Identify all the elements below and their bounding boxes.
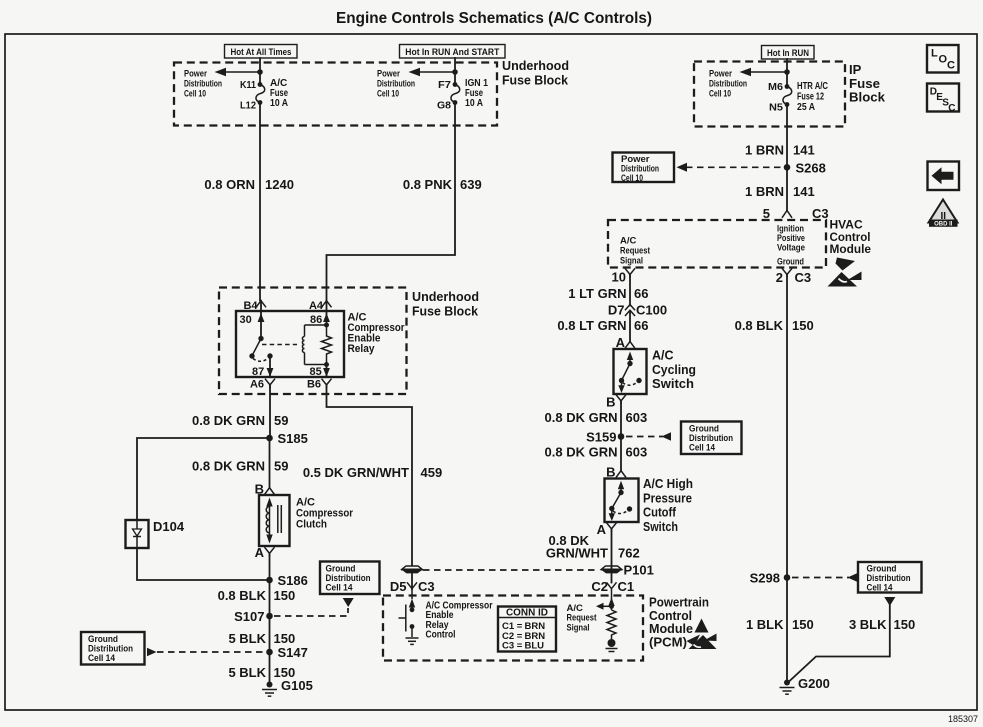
svg-text:0.8 DK GRN: 0.8 DK GRN [192,413,265,428]
svg-text:Fuse 12: Fuse 12 [797,92,824,103]
splice S159 [618,433,625,440]
svg-text:Voltage: Voltage [777,243,805,254]
svg-text:Engine Controls Schematics (A/: Engine Controls Schematics (A/C Controls… [336,10,652,27]
ESD symbol (PCM small) [695,619,709,633]
wire from Hot In RUN And START to fuse [454,58,456,83]
svg-text:Cell 10: Cell 10 [377,89,399,100]
svg-text:603: 603 [626,445,648,460]
svg-text:C3: C3 [812,206,829,221]
svg-text:0.8 LT GRN: 0.8 LT GRN [557,318,626,333]
svg-text:C100: C100 [636,303,667,318]
wire 0.8 LT GRN 66 [629,311,631,342]
ESD symbol (PCM large) [687,634,717,650]
terminal C2 C1 into PCM [591,579,634,594]
svg-text:G200: G200 [798,676,830,691]
svg-text:0.8 ORN: 0.8 ORN [204,177,255,192]
terminal 2 C3 out of HVAC [776,268,811,285]
label Underhood Fuse Block (relay) [412,289,479,318]
Underhood Fuse Block (relay) dashed box [219,288,407,395]
high pressure switch contacts [609,481,633,521]
svg-text:Underhood: Underhood [412,289,479,304]
terminal D5 C3 into PCM [390,579,435,594]
svg-text:0.8 DK GRN: 0.8 DK GRN [545,445,618,460]
CONN ID table box [498,607,556,652]
diode branch wire (D104 to S186) [137,548,270,580]
wire 0.8 BLK 150 from HVAC terminal 2 down to S298 [786,275,788,681]
svg-text:1 BLK: 1 BLK [746,617,784,632]
node junction at HTR A/C fuse feed [784,69,790,75]
svg-text:10 A: 10 A [465,98,483,109]
label HVAC Control Module [830,218,872,257]
clutch coil symbol [266,498,281,544]
svg-text:5 BLK: 5 BLK [228,665,266,680]
svg-text:Fuse Block: Fuse Block [502,73,569,88]
svg-text:150: 150 [894,617,916,632]
svg-text:F7: F7 [438,80,451,91]
svg-text:C: C [948,103,955,114]
svg-text:Pressure: Pressure [643,491,692,505]
terminal A out of high pressure switch [597,522,617,537]
A/C Compressor Clutch box [259,495,290,546]
wire 0.8 ORN 1240 [259,103,261,301]
label A/C Cycling Switch [652,349,696,392]
wire arrow to Power Distribution Cell 10 (IP) [709,68,787,100]
wire 0.8 DK GRN 603 (lower) [620,437,622,471]
inline connector at D5 [401,566,423,573]
wire 1 LT GRN 66 [629,275,631,306]
wire from 85 out with arrow [323,365,330,378]
svg-text:Cell 10: Cell 10 [621,173,643,184]
svg-text:150: 150 [274,631,296,646]
splice S147 [266,649,273,656]
wire 5 BLK 150 (lower) [269,652,271,682]
terminal A6 out of relay [250,379,275,391]
terminal 5 C3 into HVAC [763,206,829,221]
wire 0.8 DK GRN 59 to clutch [269,438,271,488]
A/C Compressor Enable Relay box [236,311,344,377]
terminal A4 into relay [309,300,332,312]
dashed connector line P101 to C3 [423,569,599,571]
svg-text:1 BRN: 1 BRN [745,143,784,158]
wire 0.8 DK GRN 603 (upper) [620,401,622,434]
svg-text:1 BRN: 1 BRN [745,184,784,199]
Power Distribution Cell 10 reference box [613,153,675,185]
svg-text:D5: D5 [390,579,407,594]
diode branch wire (S185 to D104) [137,438,270,520]
HVAC Control Module dashed box [608,220,826,268]
svg-text:CONN ID: CONN ID [506,608,548,619]
label IP Fuse Block [849,62,886,105]
svg-text:87: 87 [252,366,264,378]
svg-text:(PCM): (PCM) [649,635,687,649]
svg-text:150: 150 [792,318,814,333]
connector D7 C100 (double chevron) [608,303,667,318]
svg-text:66: 66 [634,286,648,301]
ground G200 [780,676,830,694]
sidebar OBD II triangle [929,200,958,228]
svg-text:Hot In RUN And START: Hot In RUN And START [405,47,499,58]
dashed reference wire S159 to Ground Distribution Cell 14 [626,432,671,441]
svg-text:1 LT GRN: 1 LT GRN [568,286,626,301]
svg-text:Module: Module [649,622,693,636]
svg-text:Cell 14: Cell 14 [88,653,116,664]
splice S107 [266,613,273,620]
svg-text:Block: Block [849,90,886,105]
svg-text:Hot In RUN: Hot In RUN [767,48,809,59]
ground G105 [262,678,313,696]
terminal B6 out of relay [307,379,332,391]
wire arrow to Power Distribution Cell 10 (2nd) [377,68,455,100]
sidebar back-arrow box [928,162,960,191]
svg-text:639: 639 [460,177,482,192]
wire into D5 [411,574,413,589]
svg-text:C3: C3 [418,579,435,594]
Underhood Fuse Block (top) dashed box [174,63,497,126]
svg-text:Signal: Signal [620,256,643,267]
terminal A into cycling switch [616,335,635,350]
svg-text:Hot At All Times: Hot At All Times [231,47,292,58]
Hot At All Times header box [225,45,298,59]
wire 5 BLK 150 [269,616,271,652]
svg-text:0.5 DK GRN/WHT: 0.5 DK GRN/WHT [303,465,409,480]
PCM input: A/C Request Signal with pull-up resistor [596,592,618,652]
svg-text:L12: L12 [240,101,256,112]
svg-text:P101: P101 [624,563,654,578]
svg-text:2: 2 [776,270,783,285]
svg-text:0.8 DK GRN: 0.8 DK GRN [545,410,618,425]
svg-text:59: 59 [274,413,288,428]
wire from Hot In RUN to fuse [786,59,788,85]
IP Fuse Block dashed box [694,62,845,127]
svg-text:Switch: Switch [652,377,694,391]
wire 0.8 BLK 150 [269,580,271,616]
relay switch contact [249,336,297,361]
Hot In RUN And START header box [400,45,506,59]
svg-text:GRN/WHT: GRN/WHT [546,546,608,561]
svg-text:A6: A6 [250,379,264,391]
label A/C High Pressure Cutoff Switch [643,477,693,534]
label A/C Compressor Enable Relay [348,312,406,356]
node junction at A/C fuse feed [257,69,263,75]
sidebar LOC box [927,45,959,73]
svg-text:BLU: BLU [525,641,545,652]
svg-text:S147: S147 [278,645,308,660]
wire 0.8 DK GRN/WHT 762 [611,529,613,583]
terminal B out of cycling switch [606,395,626,410]
svg-text:S186: S186 [278,573,308,588]
svg-text:Clutch: Clutch [296,519,327,531]
svg-text:A: A [255,545,265,560]
fuse IGN 1 Fuse 10A [437,78,488,112]
svg-text:150: 150 [274,588,296,603]
svg-text:Cell 14: Cell 14 [689,443,716,454]
splice S298 [784,574,791,581]
terminal B into high pressure switch [606,465,626,480]
ESD symbol (HVAC) [828,258,862,287]
svg-text:30: 30 [240,314,252,326]
wire into relay 86 with arrow [323,301,330,325]
terminal B into clutch [255,482,275,497]
svg-text:Cycling: Cycling [652,363,696,377]
sidebar DESC box [927,84,959,115]
svg-text:G105: G105 [281,678,313,693]
fuse HTR A/C Fuse 12 25A [768,81,828,114]
svg-text:0.8 DK GRN: 0.8 DK GRN [192,459,265,474]
svg-text:10: 10 [612,270,626,285]
svg-text:C1: C1 [618,579,635,594]
svg-text:66: 66 [634,318,648,333]
node junction at IGN 1 fuse feed [452,69,458,75]
wire 0.5 DK GRN/WHT 459 from relay B6 to PCM [327,385,413,566]
svg-text:185307: 185307 [948,714,978,724]
svg-text:OBD II: OBD II [934,222,953,228]
svg-text:Cell 10: Cell 10 [709,89,731,100]
svg-text:Control: Control [426,630,456,641]
svg-text:25 A: 25 A [797,102,815,113]
wire 0.8 DK GRN 59 from A6 to S185 [269,385,271,438]
wire arrow to Power Distribution Cell 10 [184,68,260,100]
svg-text:Signal: Signal [567,622,590,633]
terminal A out of clutch [255,545,275,560]
svg-text:B: B [606,395,615,410]
svg-text:10 A: 10 A [270,98,288,109]
svg-text:HTR A/C: HTR A/C [797,81,828,92]
svg-text:B6: B6 [307,379,321,391]
svg-text:D7: D7 [608,303,625,318]
svg-text:3 BLK: 3 BLK [849,617,887,632]
svg-text:S185: S185 [278,431,308,446]
svg-text:G8: G8 [437,101,451,112]
svg-text:Switch: Switch [643,520,678,534]
Ground Distribution Cell 14 box (S107) [320,562,380,595]
label Underhood Fuse Block [502,58,569,88]
dashed reference wire to S268 with arrow [677,163,783,172]
wire clutch to S186 [269,553,271,580]
cycling switch contacts [618,352,641,394]
svg-text:Relay: Relay [348,343,376,355]
svg-text:D104: D104 [153,519,185,534]
svg-text:C3: C3 [795,270,812,285]
Ground Distribution Cell 14 box (S298) [858,562,922,594]
svg-text:85: 85 [310,366,322,378]
label A/C Request Signal (PCM) [567,603,598,633]
svg-text:Cell 14: Cell 14 [867,583,894,594]
PCM driver: A/C Compressor Enable Relay Control [399,592,419,644]
svg-text:A/C: A/C [652,349,674,363]
svg-text:150: 150 [792,617,814,632]
label A/C Compressor Clutch [296,497,354,531]
svg-text:141: 141 [793,184,815,199]
HVAC internal labels [777,224,805,268]
svg-text:59: 59 [274,459,288,474]
wire from Hot At All Times to fuse [259,58,261,83]
svg-text:0.8 BLK: 0.8 BLK [218,588,267,603]
dashed reference wire S298 to Ground Distribution Cell 14 [792,573,857,582]
wire from 87 contact out with arrow [267,356,274,377]
wire into relay 30 with arrow [258,301,265,339]
svg-text:Cell 14: Cell 14 [326,583,354,594]
svg-text:K11: K11 [240,80,256,91]
svg-text:0.8 BLK: 0.8 BLK [735,318,784,333]
label A/C Compressor Enable Relay Control [426,601,493,641]
svg-text:C3 =: C3 = [502,641,523,652]
A/C High Pressure Cutoff Switch box [605,479,639,523]
svg-text:L: L [931,48,938,60]
wire 1 BRN 141 (upper) [786,105,788,211]
Ground Distribution Cell 14 box (S147) [81,632,145,665]
dashed reference wire S147 to ground box with arrow [147,648,264,657]
svg-text:Ground: Ground [777,257,804,268]
splice S185 [266,435,273,442]
svg-text:IP: IP [849,62,862,77]
relay coil resistor [322,325,332,365]
svg-text:C: C [947,60,955,72]
wire 3 BLK 150 from ground box down to G200 [789,597,895,682]
splice S268 [784,164,791,171]
svg-text:141: 141 [793,143,815,158]
diode D104 [126,519,185,548]
svg-text:Control: Control [649,609,692,623]
svg-text:B: B [606,465,615,480]
svg-text:459: 459 [421,465,443,480]
svg-text:Underhood: Underhood [502,58,569,73]
svg-text:Cell 10: Cell 10 [184,89,206,100]
svg-text:762: 762 [618,546,640,561]
relay coil [302,323,329,368]
inline connector P101 [601,563,654,578]
splice S186 [266,577,273,584]
svg-text:N5: N5 [769,103,783,114]
Ground Distribution Cell 14 box (S159) [681,422,742,455]
svg-text:Cutoff: Cutoff [643,506,677,520]
svg-text:A/C High: A/C High [643,477,693,491]
svg-text:Module: Module [830,242,872,256]
Powertrain Control Module dashed box [383,596,643,661]
svg-text:S298: S298 [750,571,780,586]
terminal 10 out of HVAC [612,268,635,284]
Hot In RUN header box [762,46,815,60]
svg-text:S268: S268 [796,161,826,176]
A/C Cycling Switch box [614,349,647,394]
svg-text:S107: S107 [234,609,264,624]
svg-text:5 BLK: 5 BLK [228,631,266,646]
svg-text:A: A [616,335,626,350]
svg-text:Powertrain: Powertrain [649,596,709,610]
svg-text:1240: 1240 [265,177,294,192]
svg-text:603: 603 [626,410,648,425]
svg-text:0.8 PNK: 0.8 PNK [403,177,453,192]
svg-text:A: A [597,522,607,537]
svg-text:C2: C2 [591,579,608,594]
terminal B4 into relay [243,300,266,312]
label Powertrain Control Module (PCM) [649,596,709,650]
svg-text:Fuse Block: Fuse Block [412,303,479,318]
svg-text:S159: S159 [586,430,616,445]
wire 0.8 PNK 639 [327,103,456,301]
svg-text:M6: M6 [768,82,783,93]
fuse A/C Fuse 10A [240,78,288,112]
svg-text:86: 86 [310,314,322,326]
dashed reference wire S107 to Ground Distribution Cell 14 [274,598,354,616]
svg-text:5: 5 [763,206,770,221]
